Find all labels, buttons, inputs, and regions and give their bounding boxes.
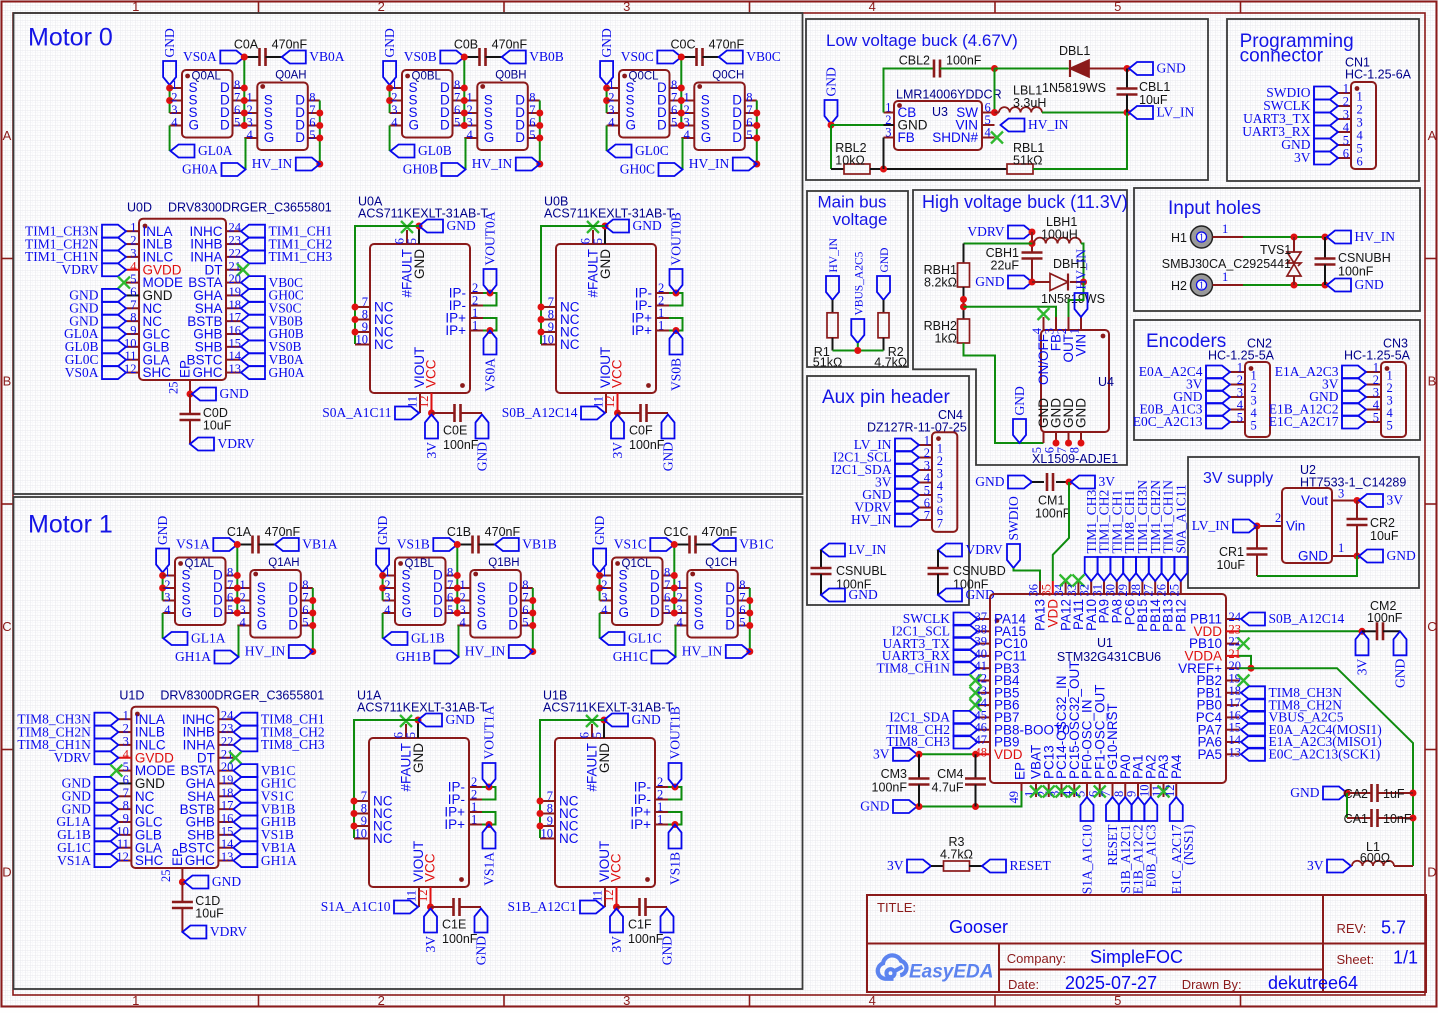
svg-text:5: 5	[454, 116, 460, 130]
svg-text:7: 7	[937, 516, 943, 530]
junction	[454, 572, 461, 579]
svg-text:D: D	[2, 864, 11, 879]
junction	[538, 304, 545, 311]
net label GND	[821, 589, 845, 602]
junction	[753, 135, 760, 142]
svg-text:NC: NC	[560, 337, 580, 352]
net label GH1B	[233, 816, 257, 829]
svg-text:SHDN#: SHDN#	[932, 130, 978, 145]
transistor Q0BL	[402, 70, 453, 138]
pin 9 PA1	[1137, 783, 1139, 797]
pin 1 IP+	[656, 330, 669, 332]
capacitor C0B 470nF	[464, 56, 479, 58]
svg-text:5: 5	[746, 128, 752, 142]
junction	[536, 161, 543, 168]
net label SWCLK	[954, 613, 978, 626]
pin 3 INLC	[126, 256, 139, 258]
pin 12 PA4	[1175, 783, 1177, 797]
svg-text:CSNUBD: CSNUBD	[953, 564, 1006, 578]
svg-text:HV_IN: HV_IN	[851, 512, 892, 527]
svg-text:SHC: SHC	[143, 365, 172, 380]
svg-text:VCC: VCC	[423, 853, 438, 882]
net label RESET	[1106, 797, 1119, 821]
net label VOUT0B	[670, 269, 683, 293]
junction	[536, 110, 543, 117]
resistor RBL1 51k	[1007, 164, 1033, 174]
svg-text:3V: 3V	[1387, 493, 1404, 508]
pin 35 VDD	[1052, 581, 1054, 594]
svg-text:CA1: CA1	[1344, 812, 1368, 826]
pin 7 NC	[355, 306, 370, 308]
net label TIM1_CH3N	[1136, 557, 1149, 581]
svg-text:3V: 3V	[1307, 858, 1324, 873]
svg-text:VDRV: VDRV	[967, 224, 1004, 239]
svg-text:U1D: U1D	[119, 688, 144, 702]
junction	[536, 135, 543, 142]
capacitor CBL1 10uF	[1126, 69, 1128, 89]
resistor RBH2 1k	[958, 319, 970, 343]
pin 1 IP+	[655, 811, 668, 813]
svg-text:3V: 3V	[887, 858, 904, 873]
svg-text:5: 5	[671, 116, 677, 130]
svg-text:10: 10	[356, 333, 369, 347]
net label GND	[102, 315, 126, 328]
svg-text:G: G	[477, 617, 488, 632]
svg-text:VCC: VCC	[609, 853, 624, 882]
svg-text:LV_IN: LV_IN	[1157, 105, 1195, 120]
transistor Q0AL	[182, 70, 233, 138]
junction	[536, 122, 543, 129]
net label TIM1_CH2	[241, 238, 265, 251]
capacitor CM2 100nF	[1362, 630, 1377, 632]
svg-text:GND: GND	[446, 712, 475, 727]
pin 3 FB	[1055, 317, 1057, 330]
svg-text:HV_IN: HV_IN	[828, 237, 840, 272]
svg-text:RESET: RESET	[1010, 858, 1052, 873]
junction	[671, 585, 678, 592]
pin 4 GVDD	[118, 757, 131, 759]
wire IP+ pair	[668, 812, 682, 825]
svg-text:VCC: VCC	[610, 359, 625, 388]
svg-text:Q1BH: Q1BH	[488, 557, 519, 569]
pin 3 PC14-OSC32_IN	[1061, 783, 1063, 797]
pin 9 NC	[541, 331, 556, 333]
pin 6 GND	[1055, 432, 1057, 443]
pin 22 PB10	[1226, 643, 1239, 645]
pin 16 GHB	[218, 821, 233, 823]
svg-text:D: D	[732, 130, 742, 145]
pin 4 PC15-OSC32_OUT	[1073, 783, 1075, 797]
pin 5	[919, 494, 932, 496]
net label VOUT1A	[483, 763, 496, 787]
svg-text:1: 1	[1338, 541, 1344, 555]
svg-text:GH1A: GH1A	[175, 649, 211, 664]
transistor Q0CH	[694, 83, 745, 151]
pin 3 Vout	[1332, 500, 1345, 502]
junction	[234, 585, 241, 592]
net label GH0C	[682, 138, 684, 170]
pin 26 PB13	[1167, 581, 1169, 594]
svg-text:G: G	[626, 117, 637, 132]
pin 2	[1366, 384, 1381, 386]
svg-text:C1F: C1F	[628, 918, 652, 932]
wire IP- pair	[483, 293, 497, 306]
pin 18 PB1	[1226, 692, 1239, 694]
svg-text:6: 6	[1357, 154, 1363, 168]
wire	[540, 720, 604, 838]
svg-text:GND: GND	[879, 248, 891, 273]
pin 6 #FAULT	[591, 724, 593, 738]
pin 28 PB15	[1141, 581, 1143, 594]
svg-text:Drawn By:: Drawn By:	[1182, 977, 1242, 992]
svg-text:1uF: 1uF	[1383, 787, 1405, 801]
svg-text:LV_IN: LV_IN	[849, 542, 887, 557]
svg-text:VS0A: VS0A	[65, 365, 99, 380]
net label S1B_A12C1	[1119, 797, 1132, 821]
svg-text:GHC: GHC	[185, 853, 215, 868]
inductor L1 600ohm	[1352, 861, 1394, 866]
net label TIM8_CH2N	[1241, 699, 1265, 712]
junction	[234, 597, 241, 604]
junction	[1029, 279, 1036, 286]
junction	[1354, 553, 1361, 560]
junction	[613, 904, 620, 911]
pin 11 VIOUT	[604, 887, 606, 907]
junction	[1248, 665, 1255, 672]
svg-text:A: A	[3, 128, 12, 143]
svg-text:GND: GND	[1387, 548, 1416, 563]
svg-text:4.7kΩ: 4.7kΩ	[940, 848, 973, 862]
power flag 3V	[424, 909, 437, 933]
svg-text:10uF: 10uF	[195, 907, 224, 921]
wire IP+ pair	[669, 318, 683, 331]
pin 1 GND	[1332, 555, 1345, 557]
svg-text:GND: GND	[412, 249, 427, 279]
junction	[1053, 440, 1060, 447]
pin 5	[1230, 421, 1245, 423]
junction	[991, 65, 998, 72]
pin 23 INHB	[226, 243, 241, 245]
junction	[1065, 440, 1072, 447]
pin 12 VCC	[431, 393, 433, 413]
pin 17 PB0	[1226, 704, 1239, 706]
pin 44 PB6	[978, 704, 991, 706]
net label TIM1_CH3N	[102, 225, 126, 238]
net label HV_IN	[509, 645, 533, 658]
junction	[972, 803, 979, 810]
net label VS0C	[241, 302, 265, 315]
pin 9 NC	[354, 825, 369, 827]
junction	[352, 304, 359, 311]
section box Encoders	[1134, 320, 1420, 440]
svg-text:10uF: 10uF	[1370, 529, 1399, 543]
junction	[614, 410, 621, 417]
title block	[867, 895, 1426, 992]
svg-text:S0A_A1C11: S0A_A1C11	[322, 405, 391, 420]
svg-text:Q1AH: Q1AH	[268, 557, 299, 569]
net label TIM1_CH1N	[1162, 557, 1175, 581]
svg-text:470nF: 470nF	[485, 525, 521, 539]
svg-text:connector: connector	[1240, 46, 1324, 67]
pin 2 INLB	[126, 243, 139, 245]
svg-text:1: 1	[1199, 233, 1204, 244]
svg-text:VB0C: VB0C	[746, 49, 781, 64]
net label S0A_A1C11	[395, 407, 419, 420]
svg-text:HV_IN: HV_IN	[245, 644, 286, 659]
pin 14 BSTC	[226, 359, 241, 361]
net label HV_IN	[895, 514, 919, 527]
svg-text:VS1B: VS1B	[668, 852, 683, 885]
svg-text:REV:: REV:	[1337, 921, 1367, 936]
net label SWDIO	[1314, 87, 1338, 100]
svg-text:10nF: 10nF	[1383, 812, 1412, 826]
net label GH0A	[241, 366, 265, 379]
net label E0A_A2C4(MOSI1)	[1241, 723, 1265, 736]
net label VS0A	[484, 331, 497, 355]
junction	[454, 597, 461, 604]
pin 3	[1230, 396, 1245, 398]
pin 1	[1230, 371, 1245, 373]
svg-text:51kΩ: 51kΩ	[813, 356, 843, 370]
junction	[316, 161, 323, 168]
svg-text:EP: EP	[170, 848, 185, 866]
pin 3 INLC	[118, 744, 131, 746]
net label LV_IN	[821, 544, 845, 557]
net label 3V	[1342, 378, 1366, 391]
capacitor CBH1 22uF	[1022, 253, 1043, 259]
pin 10 GLB	[126, 346, 139, 348]
svg-text:G: G	[264, 130, 275, 145]
svg-text:NC: NC	[373, 831, 393, 846]
svg-text:U1: U1	[1097, 636, 1113, 650]
pin 14 BSTC	[218, 847, 233, 849]
pin 1 INLA	[118, 718, 131, 720]
pin 42 PB4	[978, 680, 991, 682]
net label LV_IN	[1233, 520, 1257, 533]
svg-text:5: 5	[227, 603, 233, 617]
svg-text:G: G	[402, 605, 413, 620]
pin 24 INHC	[226, 230, 241, 232]
svg-text:PA5: PA5	[1197, 747, 1222, 762]
svg-text:GND: GND	[1355, 277, 1384, 292]
pin 8 NC	[118, 808, 131, 810]
junction	[428, 410, 435, 417]
pin 11 GLA	[118, 847, 131, 849]
net label VDRV	[94, 751, 118, 764]
wire HV rail	[532, 588, 534, 652]
svg-text:EP: EP	[1013, 762, 1028, 780]
svg-text:GH1C: GH1C	[613, 649, 648, 664]
svg-text:CSNUBL: CSNUBL	[836, 564, 887, 578]
svg-text:470nF: 470nF	[265, 525, 301, 539]
pin 17 BSTB	[226, 320, 241, 322]
net label HV_IN	[726, 645, 750, 658]
junction	[1354, 497, 1361, 504]
section box Main bus voltage	[807, 191, 908, 367]
svg-text:HV_IN: HV_IN	[1355, 229, 1396, 244]
wire VDDA	[1239, 656, 1251, 668]
svg-text:VS0B: VS0B	[669, 358, 684, 391]
net label VS0B	[670, 331, 683, 355]
pin 12 VCC	[430, 887, 432, 907]
net label S0A_A1C11	[1174, 557, 1187, 581]
svg-text:TIM1_CH3: TIM1_CH3	[269, 249, 333, 264]
diode DBH1 1N5819WS	[1032, 281, 1050, 283]
svg-text:HV_IN: HV_IN	[465, 644, 506, 659]
power flag GND (Q1CL sources)	[593, 549, 606, 573]
svg-text:C0A: C0A	[234, 38, 259, 52]
svg-text:12: 12	[417, 396, 431, 409]
pin 2 IP-	[656, 292, 669, 294]
pin 8 GND	[1080, 432, 1082, 443]
svg-text:dekutree64: dekutree64	[1268, 973, 1358, 993]
svg-text:Motor 0: Motor 0	[28, 24, 113, 52]
junction	[1322, 234, 1329, 241]
net label VS1C	[233, 790, 257, 803]
net label VDRV	[895, 501, 919, 514]
svg-text:D: D	[288, 617, 298, 632]
pin 10 NC	[355, 344, 370, 346]
pin 31 PA9	[1103, 581, 1105, 594]
junction	[241, 110, 248, 117]
power flag GND (Q0CL sources)	[600, 61, 613, 85]
junction	[187, 391, 194, 398]
junction	[316, 110, 323, 117]
net label TIM8_CH1N	[954, 662, 978, 675]
svg-text:GND: GND	[220, 386, 249, 401]
pin 5 GND	[417, 720, 419, 738]
svg-text:3: 3	[1343, 108, 1349, 122]
power flag 3V	[1327, 860, 1351, 873]
svg-text:Company:: Company:	[1007, 951, 1066, 966]
svg-text:GND: GND	[633, 218, 662, 233]
pin 24 PB11	[1226, 618, 1239, 620]
transistor Q0AH	[257, 83, 308, 151]
svg-text:5: 5	[404, 732, 418, 738]
wire HV rail	[749, 588, 751, 652]
net label GL1A	[94, 816, 118, 829]
svg-text:VS1A: VS1A	[57, 853, 91, 868]
junction	[351, 810, 358, 817]
net label VDRV	[182, 926, 206, 939]
net label S0B_A12C14	[1241, 613, 1265, 626]
pin wire	[1213, 284, 1244, 286]
wire	[830, 125, 832, 169]
pin 1 IP+	[656, 317, 669, 319]
net label E0C_A2C13	[1206, 416, 1230, 429]
svg-text:D: D	[440, 117, 450, 132]
svg-text:GND: GND	[155, 516, 170, 545]
net label VB0B	[241, 315, 265, 328]
svg-text:S1A_A1C10: S1A_A1C10	[1080, 824, 1095, 894]
junction	[241, 97, 248, 104]
net label VDRV	[102, 263, 126, 276]
svg-text:GHC: GHC	[193, 365, 223, 380]
net label VB0A	[282, 51, 306, 64]
svg-text:D: D	[213, 605, 223, 620]
svg-text:VIN: VIN	[1074, 334, 1089, 357]
svg-text:10: 10	[542, 333, 555, 347]
pin 7 NC	[354, 800, 369, 802]
svg-text:VCC: VCC	[424, 359, 439, 388]
svg-text:VDRV: VDRV	[218, 436, 255, 451]
net label TIM8_CH1	[233, 713, 257, 726]
svg-text:5: 5	[405, 238, 419, 244]
junction	[916, 803, 923, 810]
junction	[309, 622, 316, 629]
net label TIM1_CH2	[1098, 557, 1111, 581]
junction	[241, 54, 248, 61]
pin 7 NC	[126, 307, 139, 309]
wire	[1014, 568, 1041, 581]
pin 11 PA3	[1163, 783, 1165, 797]
svg-text:470nF: 470nF	[702, 525, 738, 539]
svg-text:S0B_A12C14: S0B_A12C14	[502, 405, 578, 420]
power flag 3V	[1071, 476, 1095, 489]
pin 46 PB8-BOOT0	[978, 729, 991, 731]
junction	[166, 85, 173, 92]
junction	[671, 541, 678, 548]
svg-text:VS0B: VS0B	[404, 49, 437, 64]
wire IP- pair	[482, 787, 496, 800]
pin 2 Vin	[1269, 525, 1282, 527]
svg-text:4: 4	[677, 616, 684, 630]
net label HV_IN	[733, 158, 757, 171]
svg-text:100nF: 100nF	[1338, 265, 1374, 279]
svg-text:5: 5	[1114, 0, 1121, 14]
junction	[602, 223, 609, 230]
svg-text:5: 5	[447, 603, 453, 617]
pin 19 PB2	[1226, 680, 1239, 682]
net label RESET	[982, 860, 1006, 873]
svg-text:TITLE:: TITLE:	[877, 900, 916, 915]
svg-text:GL1B: GL1B	[411, 631, 445, 646]
svg-text:4: 4	[384, 603, 391, 617]
svg-text:GH0A: GH0A	[182, 162, 218, 177]
svg-text:E0B_A1C3: E0B_A1C3	[1143, 824, 1158, 887]
buck converter U4 XL1509-ADJE1	[1041, 330, 1109, 432]
capacitor C1C 470nF	[674, 544, 689, 546]
power flag GND	[661, 909, 674, 933]
svg-text:5: 5	[309, 128, 315, 142]
svg-text:10uF: 10uF	[203, 419, 232, 433]
svg-text:U3: U3	[932, 105, 948, 119]
junction	[241, 122, 248, 129]
net label GH1A	[233, 854, 257, 867]
svg-text:10kΩ: 10kΩ	[835, 154, 865, 168]
capacitor C0C 470nF	[681, 56, 696, 58]
junction	[179, 879, 186, 886]
pin 2 IP-	[655, 799, 668, 801]
svg-text:5: 5	[1114, 993, 1121, 1008]
svg-text:4: 4	[247, 128, 254, 142]
pin 1 CB	[884, 112, 895, 114]
pin 6 #FAULT	[592, 230, 594, 244]
svg-text:IP+: IP+	[631, 323, 652, 338]
net label E1A_A2C3(MISO1)	[1241, 736, 1265, 749]
net label E0B_A1C3	[1144, 797, 1157, 821]
svg-text:S0A_A1C11: S0A_A1C11	[1173, 484, 1188, 553]
net label I2C1_SDA	[954, 711, 978, 724]
pin 1	[1338, 92, 1351, 94]
svg-text:4: 4	[869, 0, 876, 14]
net label GND	[94, 803, 118, 816]
svg-text:D: D	[220, 117, 230, 132]
svg-text:2: 2	[378, 0, 385, 14]
pin 8 NC	[126, 320, 139, 322]
pin 1 IP+	[470, 317, 483, 319]
section box Input holes	[1134, 188, 1420, 311]
